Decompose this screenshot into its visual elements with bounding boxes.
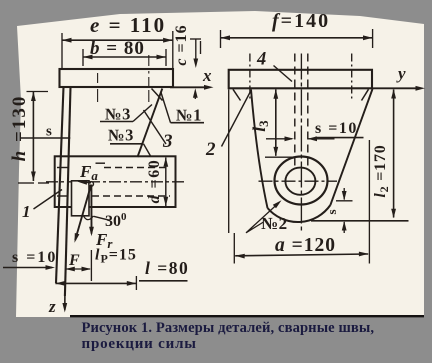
dimension c=16 lower arrow: [194, 92, 196, 99]
dimension s=10 right underline: [315, 137, 364, 139]
web hidden edge dashed right: [307, 54, 309, 169]
dimension f=140 ext left: [220, 30, 222, 48]
s thickness leader: [20, 137, 70, 139]
weld No1 leader: [161, 92, 171, 123]
dimension b=80 line: [83, 56, 166, 58]
weld No3 upper underline: [100, 121, 133, 123]
gusset left slant: [251, 90, 268, 209]
dimension h=130 line: [32, 92, 34, 182]
part 3 leader: [144, 110, 167, 144]
svg-text:l =80: l =80: [145, 258, 189, 278]
dimension a=120 ext left: [233, 233, 235, 264]
force Fa overbar: [96, 162, 106, 164]
left extension line: [228, 90, 230, 234]
weld tick left: [233, 89, 241, 100]
dimension l=80 ext tick: [135, 276, 137, 290]
vertical center line: [300, 54, 302, 233]
svg-text:h =130: h =130: [9, 95, 30, 162]
z axis: [64, 296, 66, 310]
force Fr vector: [90, 185, 92, 234]
gusset base line: [311, 220, 409, 222]
svg-text:s: s: [46, 124, 52, 140]
angle 30 leader: [94, 216, 110, 220]
dimension s small arrows: [343, 188, 345, 200]
dimension b=80 ext right: [165, 49, 167, 66]
svg-text:z: z: [48, 297, 56, 316]
svg-text:e = 110: e = 110: [90, 13, 166, 37]
gusset diagonal edge: [138, 89, 163, 158]
dimension f=140 ext right: [372, 29, 374, 48]
svg-text:f=140: f=140: [272, 10, 330, 32]
arm hidden slot upper dashes: [57, 167, 68, 169]
horizontal arm outline: [55, 156, 176, 207]
dimension l=80 line: [55, 282, 136, 284]
svg-text:3: 3: [162, 131, 173, 152]
svg-text:x: x: [202, 66, 212, 85]
dimension l2=170 line: [393, 90, 395, 218]
rivet center line right: [351, 54, 353, 101]
dimension e=110 ext left: [61, 33, 63, 68]
pin point circle: [89, 182, 94, 187]
svg-text:№3: №3: [108, 126, 134, 145]
angle 30 arc: [83, 215, 94, 220]
part 1 label leader: [34, 190, 63, 210]
dimension l3 line: [275, 90, 277, 156]
web plate left edge: [56, 87, 64, 283]
pin block: [72, 181, 90, 216]
svg-text:1: 1: [22, 202, 31, 221]
force Fa arrow: [80, 181, 91, 184]
force line ext tick: [90, 250, 92, 281]
dimension l3 ext: [265, 156, 297, 158]
svg-text:проекции силы: проекции силы: [82, 336, 197, 352]
arm hidden slot lower dashes: [57, 195, 68, 197]
weld No3 lower underline: [110, 143, 144, 145]
svg-text:a =120: a =120: [275, 235, 336, 256]
dimension a=120 line: [235, 254, 368, 256]
rivet center line left: [249, 54, 251, 101]
part 2 leader: [222, 91, 252, 147]
svg-text:b = 80: b = 80: [90, 38, 145, 59]
weld tick right: [362, 89, 369, 100]
dimension e=110 ext right: [172, 31, 174, 69]
part 4 leader: [274, 66, 293, 82]
svg-text:F: F: [68, 252, 80, 269]
centerline below plate left: [97, 73, 99, 83]
hole inner circle: [285, 168, 315, 195]
gusset right slant: [330, 89, 372, 205]
web plate right edge: [65, 87, 71, 296]
hole outer circle: [275, 157, 328, 205]
hole horizontal center line: [259, 180, 338, 182]
dimension h=130 ext bottom: [18, 182, 34, 184]
svg-text:№3: №3: [105, 105, 131, 124]
top flange plate (left view): [60, 69, 174, 87]
dimension d=60 line: [165, 158, 167, 207]
caption top border line: [70, 315, 424, 317]
weld No3 lower leader: [144, 144, 151, 156]
svg-text:s =10: s =10: [315, 120, 358, 137]
centerline below plate right: [148, 55, 150, 66]
gusset bottom curve: [268, 205, 331, 222]
scanned paper sheet: [16, 11, 424, 317]
svg-text:Рисунок 1. Размеры деталей, св: Рисунок 1. Размеры деталей, сварные швы,: [82, 320, 375, 336]
svg-text:№1: №1: [176, 106, 202, 125]
dimension c=16 tick: [200, 41, 202, 54]
weld No2 leader: [246, 204, 278, 233]
dimension c=16 upper leader: [195, 39, 197, 60]
svg-text:y: y: [396, 64, 406, 83]
dimension b=80 ext left: [82, 49, 84, 66]
dimension h=130 ext top: [27, 91, 49, 93]
weld tick at plate: [152, 89, 163, 101]
dimension s=10 right arrows: [266, 138, 292, 140]
svg-text:2: 2: [205, 139, 216, 160]
dimension a=120 ext right: [368, 140, 370, 264]
web hidden edge dashed left: [294, 54, 296, 169]
dimension lp=15 arrows: [66, 268, 90, 270]
svg-text:c =16: c =16: [173, 24, 190, 65]
dimension s=10 left leader: [3, 267, 52, 269]
svg-text:s =10: s =10: [12, 249, 57, 266]
dimension l=80 shelf: [139, 280, 188, 282]
weld No3 upper leader: [133, 105, 152, 122]
y axis: [372, 87, 418, 89]
svg-text:s: s: [324, 209, 339, 214]
svg-text:№2: №2: [261, 214, 288, 233]
top flange plate (right view): [229, 70, 372, 89]
dimension e=110 line: [62, 39, 173, 41]
dimension f=140 line: [221, 37, 373, 39]
arm center line: [46, 181, 184, 183]
force F vector: [75, 185, 91, 241]
dimension s small tick: [336, 200, 353, 202]
svg-text:4: 4: [256, 50, 266, 70]
weld No1 underline: [171, 122, 205, 124]
x axis: [170, 86, 207, 88]
